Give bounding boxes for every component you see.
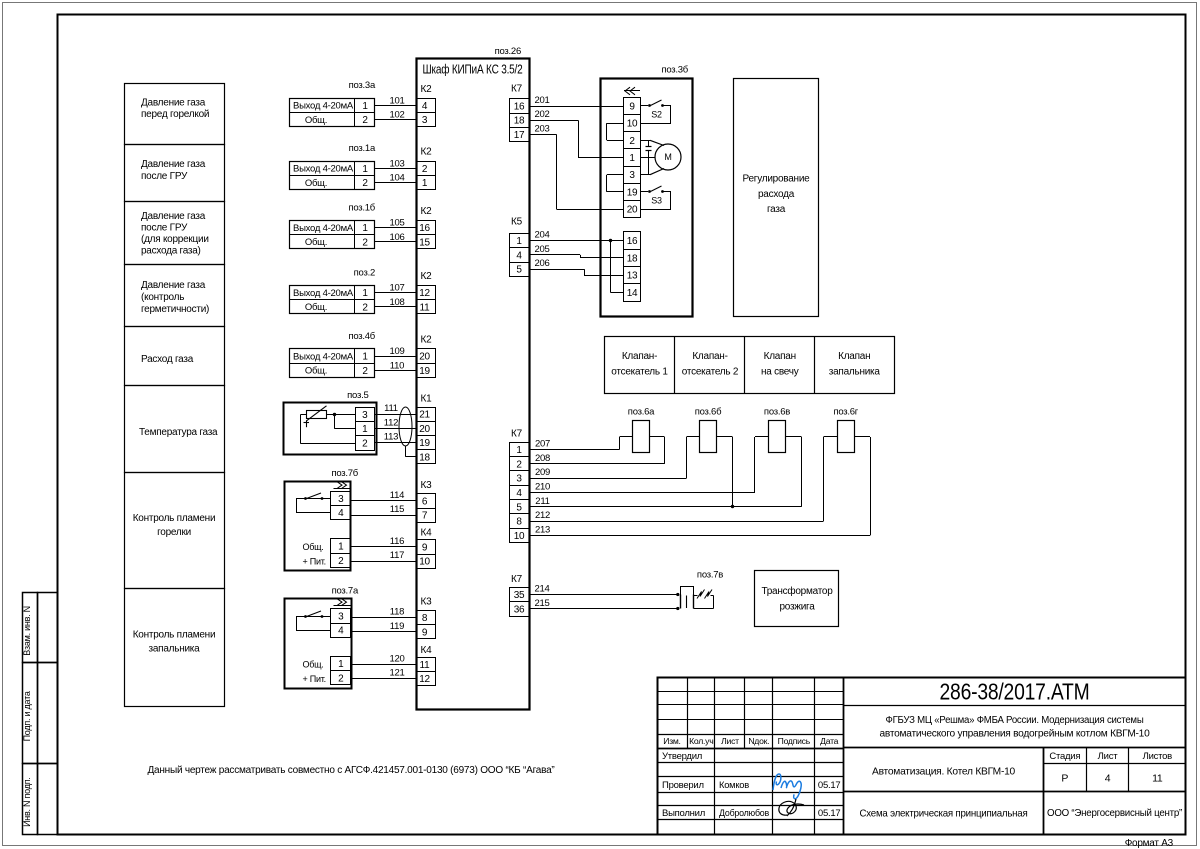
svg-text:Схема электрическая принципиал: Схема электрическая принципиальная [860,807,1028,819]
svg-text:Клапан-: Клапан- [692,351,727,362]
svg-text:К2: К2 [421,271,433,282]
svg-text:Лист: Лист [721,736,739,746]
svg-text:Листов: Листов [1143,751,1173,762]
svg-text:поз.2: поз.2 [354,267,375,278]
svg-text:208: 208 [535,453,550,464]
svg-text:16: 16 [627,236,638,247]
svg-text:1: 1 [338,542,344,553]
svg-text:9: 9 [422,627,428,638]
svg-text:16: 16 [419,223,430,234]
svg-text:16: 16 [514,102,525,113]
svg-text:М: М [664,152,671,162]
svg-text:поз.6б: поз.6б [695,406,722,417]
svg-text:117: 117 [390,550,404,561]
svg-text:19: 19 [419,366,430,377]
svg-text:Выход 4-20мА: Выход 4-20мА [293,101,354,112]
svg-text:Общ.: Общ. [303,660,324,670]
svg-text:2: 2 [362,115,368,126]
svg-text:2: 2 [362,302,368,313]
svg-text:14: 14 [627,288,638,299]
svg-text:13: 13 [627,271,638,282]
svg-text:расхода: расхода [758,189,795,200]
svg-text:3: 3 [338,494,344,505]
svg-text:5: 5 [516,265,522,276]
svg-text:Р: Р [1061,772,1068,784]
svg-text:9: 9 [629,101,635,112]
svg-text:S3: S3 [651,196,662,206]
svg-text:108: 108 [389,297,404,308]
svg-text:11: 11 [420,302,431,313]
svg-text:118: 118 [390,607,404,618]
svg-text:+ Пит.: + Пит. [303,556,326,566]
svg-text:36: 36 [514,604,525,615]
svg-text:Данный чертеж рассматривать со: Данный чертеж рассматривать совместно с … [148,765,555,776]
svg-text:Изм.: Изм. [663,736,680,746]
svg-text:поз.3б: поз.3б [661,64,688,75]
svg-text:Общ.: Общ. [305,366,327,377]
svg-text:горелки: горелки [157,527,191,538]
svg-text:Лист: Лист [1098,751,1119,762]
svg-text:19: 19 [627,187,638,198]
svg-text:205: 205 [534,244,549,255]
svg-text:214: 214 [534,584,549,595]
svg-text:(для коррекции: (для коррекции [141,234,209,245]
svg-text:Утвердил: Утвердил [662,751,702,762]
svg-text:5: 5 [516,502,522,513]
svg-text:120: 120 [389,653,404,664]
svg-text:Nдок.: Nдок. [748,736,769,746]
svg-text:Выход 4-20мА: Выход 4-20мА [293,223,354,234]
svg-text:Общ.: Общ. [305,237,327,248]
svg-text:К7: К7 [511,84,523,95]
svg-text:+ Пит.: + Пит. [303,674,326,684]
svg-text:К2: К2 [421,84,433,95]
svg-text:Выход 4-20мА: Выход 4-20мА [293,351,354,362]
svg-text:2: 2 [516,459,522,470]
svg-text:1: 1 [338,659,344,670]
svg-text:Выполнил: Выполнил [662,808,705,819]
svg-text:автоматического управления вод: автоматического управления водогрейным к… [880,729,1151,740]
svg-text:113: 113 [384,432,398,443]
svg-text:К5: К5 [511,216,523,227]
svg-text:Расход газа: Расход газа [141,354,194,365]
svg-text:102: 102 [389,110,404,121]
svg-text:Кол.уч: Кол.уч [689,736,713,746]
svg-text:розжига: розжига [779,602,815,613]
svg-text:114: 114 [390,490,404,501]
svg-text:поз.7б: поз.7б [331,468,358,479]
svg-text:поз.1б: поз.1б [348,202,375,213]
svg-text:104: 104 [389,173,404,184]
svg-text:101: 101 [389,95,404,106]
svg-text:4: 4 [1105,772,1111,784]
svg-text:Формат А3: Формат А3 [1125,838,1174,849]
svg-text:Общ.: Общ. [305,178,327,189]
svg-text:Трансформатор: Трансформатор [761,585,833,597]
svg-text:8: 8 [422,613,428,624]
svg-text:Клапан: Клапан [838,351,870,362]
svg-text:Регулирование: Регулирование [743,174,811,185]
svg-text:121: 121 [389,668,404,679]
svg-text:ООО “Энергосервисный центр”: ООО “Энергосервисный центр” [1047,808,1182,819]
svg-text:286-38/2017.АТМ: 286-38/2017.АТМ [940,678,1090,704]
svg-text:12: 12 [419,674,430,685]
svg-text:112: 112 [384,417,398,428]
svg-text:К2: К2 [421,206,433,217]
svg-text:К3: К3 [421,597,433,608]
svg-text:К7: К7 [511,428,523,439]
svg-text:перед горелкой: перед горелкой [141,109,209,120]
svg-text:2: 2 [338,556,344,567]
svg-text:2: 2 [338,673,344,684]
svg-text:К4: К4 [421,527,433,538]
svg-text:1: 1 [516,236,522,247]
svg-text:215: 215 [534,598,549,609]
svg-text:Давление газа: Давление газа [141,97,206,108]
svg-text:11: 11 [420,660,431,671]
svg-text:Дата: Дата [820,736,838,746]
svg-text:212: 212 [535,510,550,521]
svg-text:1: 1 [362,352,368,363]
svg-text:10: 10 [627,119,638,130]
svg-text:Клапан: Клапан [764,351,796,362]
svg-text:К2: К2 [421,335,433,346]
svg-text:20: 20 [419,352,430,363]
svg-text:К3: К3 [421,480,433,491]
svg-text:поз.26: поз.26 [495,46,521,57]
svg-text:(контроль: (контроль [141,292,184,303]
svg-text:К2: К2 [421,147,433,158]
svg-text:18: 18 [514,116,525,127]
svg-text:S2: S2 [651,110,662,120]
svg-text:Давление газа: Давление газа [141,211,206,222]
svg-text:после ГРУ: после ГРУ [141,171,188,182]
svg-text:4: 4 [516,488,522,499]
svg-text:119: 119 [390,621,404,632]
svg-text:Подпись: Подпись [778,736,811,746]
svg-text:19: 19 [419,438,430,449]
svg-text:поз.6в: поз.6в [764,406,790,417]
svg-text:3: 3 [516,474,522,485]
svg-text:1: 1 [422,178,428,189]
svg-text:201: 201 [534,95,549,106]
svg-text:115: 115 [390,504,404,515]
svg-text:15: 15 [419,237,430,248]
svg-text:Клапан-: Клапан- [622,351,657,362]
svg-text:герметичности): герметичности) [141,304,209,315]
svg-text:газа: газа [767,204,786,215]
svg-text:107: 107 [389,283,404,294]
svg-text:1: 1 [362,101,368,112]
svg-text:2: 2 [362,438,368,449]
svg-text:206: 206 [534,258,549,269]
svg-text:поз.5: поз.5 [347,390,368,401]
svg-text:поз.4б: поз.4б [348,331,375,342]
svg-text:209: 209 [535,467,550,478]
svg-text:35: 35 [514,590,525,601]
svg-text:Комков: Комков [719,780,749,791]
svg-text:1: 1 [362,164,368,175]
svg-text:6: 6 [422,496,428,507]
svg-text:запальника: запальника [829,367,881,378]
svg-text:2: 2 [629,136,635,147]
svg-text:8: 8 [516,517,522,528]
svg-text:4: 4 [516,250,522,261]
svg-text:Давление газа: Давление газа [141,280,206,291]
svg-text:Стадия: Стадия [1049,751,1080,762]
svg-text:110: 110 [390,360,404,371]
svg-text:4: 4 [338,626,344,637]
svg-text:05.17: 05.17 [818,780,841,791]
svg-text:Шкаф КИПиА КС 3.5/2: Шкаф КИПиА КС 3.5/2 [423,62,523,76]
svg-text:поз.3а: поз.3а [349,80,376,91]
svg-text:поз.6г: поз.6г [833,406,858,417]
svg-text:Подп. и дата: Подп. и дата [22,691,32,741]
svg-text:20: 20 [627,205,638,216]
svg-text:3: 3 [362,410,368,421]
svg-text:Контроль пламени: Контроль пламени [133,630,216,641]
svg-text:3: 3 [338,612,344,623]
svg-text:210: 210 [535,481,550,492]
svg-text:на свечу: на свечу [761,367,799,378]
svg-text:1: 1 [516,445,522,456]
svg-text:2: 2 [362,366,368,377]
svg-text:К4: К4 [421,645,433,656]
svg-text:Контроль пламени: Контроль пламени [133,513,216,524]
svg-text:Выход 4-20мА: Выход 4-20мА [293,164,354,175]
svg-text:213: 213 [535,524,550,535]
svg-text:Автоматизация. Котел КВГМ-10: Автоматизация. Котел КВГМ-10 [872,765,1015,777]
svg-text:05.17: 05.17 [818,808,841,819]
svg-text:Давление газа: Давление газа [141,159,206,170]
svg-text:К7: К7 [511,574,523,585]
svg-text:Проверил: Проверил [662,780,704,791]
svg-text:поз.7в: поз.7в [697,569,723,580]
svg-text:Добролюбов: Добролюбов [719,808,769,819]
svg-text:204: 204 [534,230,549,241]
svg-text:105: 105 [389,218,404,229]
svg-text:поз.1а: поз.1а [349,143,376,154]
svg-text:17: 17 [514,130,525,141]
svg-text:поз.6а: поз.6а [628,406,655,417]
svg-text:3: 3 [422,115,428,126]
svg-text:4: 4 [422,101,428,112]
svg-text:Общ.: Общ. [305,302,327,313]
svg-text:111: 111 [384,403,398,414]
svg-text:4: 4 [338,508,344,519]
svg-text:106: 106 [389,232,404,243]
svg-text:поз.7а: поз.7а [332,586,359,597]
svg-text:Температура газа: Температура газа [139,427,218,438]
svg-text:18: 18 [627,253,638,264]
svg-text:запальника: запальника [149,643,201,654]
svg-text:203: 203 [534,123,549,134]
svg-text:2: 2 [362,178,368,189]
svg-text:103: 103 [389,158,404,169]
svg-text:11: 11 [1152,772,1163,784]
svg-text:Общ.: Общ. [305,115,327,126]
svg-text:Выход 4-20мА: Выход 4-20мА [293,288,354,299]
svg-text:207: 207 [535,439,550,450]
svg-text:10: 10 [419,557,430,568]
svg-text:Взам. инв. N: Взам. инв. N [22,606,32,656]
svg-text:1: 1 [629,153,635,164]
svg-text:Общ.: Общ. [303,542,324,552]
svg-text:109: 109 [389,346,404,357]
svg-text:ФГБУЗ МЦ «Решма» ФМБА России.: ФГБУЗ МЦ «Решма» ФМБА России. Модернизац… [886,715,1144,726]
svg-text:1: 1 [362,223,368,234]
svg-text:2: 2 [422,164,428,175]
svg-text:211: 211 [535,496,549,507]
svg-text:1: 1 [362,288,368,299]
svg-text:3: 3 [629,170,635,181]
svg-text:К1: К1 [421,394,433,405]
svg-text:7: 7 [422,511,428,522]
svg-text:20: 20 [419,424,430,435]
svg-text:после ГРУ: после ГРУ [141,222,188,233]
svg-text:18: 18 [419,452,430,463]
svg-text:10: 10 [514,531,525,542]
svg-text:отсекатель 2: отсекатель 2 [682,367,739,378]
svg-text:21: 21 [419,410,430,421]
svg-text:расхода газа): расхода газа) [141,245,201,256]
svg-text:202: 202 [534,109,549,120]
svg-text:2: 2 [362,237,368,248]
svg-text:Инв. N подп.: Инв. N подп. [22,777,32,827]
svg-text:116: 116 [390,536,404,547]
svg-text:1: 1 [362,424,368,435]
svg-text:отсекатель 1: отсекатель 1 [611,367,668,378]
svg-text:12: 12 [419,288,430,299]
svg-text:9: 9 [422,542,428,553]
